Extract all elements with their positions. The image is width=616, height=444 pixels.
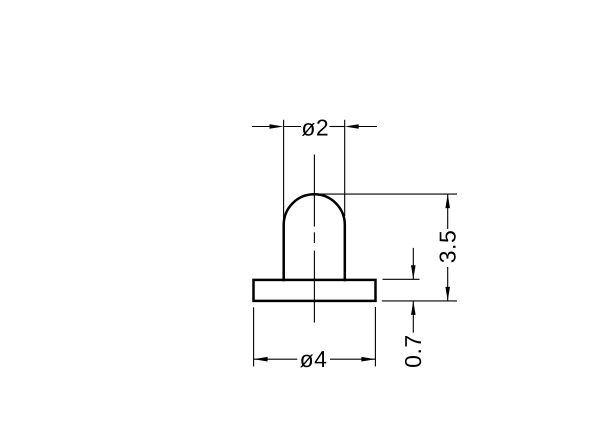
svg-text:3.5: 3.5: [434, 230, 460, 263]
dimension ø2: right arrowhead: [345, 124, 359, 129]
dimension 0.7: lower arrowhead: [411, 301, 416, 315]
dimension 0.7: upper leader with down arrow: [412, 248, 414, 279]
dimension ø2: left extension line: [283, 120, 285, 224]
dimension ø4: right line segment: [330, 358, 375, 360]
dimension 3.5: bottom arrowhead: [445, 287, 450, 301]
dimension ø4: left line segment: [254, 358, 298, 360]
dimension 0.7: lower leader with up arrow: [412, 301, 414, 333]
svg-text:0.7: 0.7: [400, 334, 426, 367]
dimension ø2: left stub: [284, 126, 301, 128]
svg-text:ø2: ø2: [301, 115, 329, 141]
dimension 3.5: lower line segment: [447, 267, 449, 301]
dimension ø2: right extension line: [344, 120, 346, 216]
dimension 3.5: upper line segment: [447, 194, 449, 229]
dimension ø2: right outside tail: [358, 126, 377, 128]
svg-text:ø4: ø4: [300, 346, 328, 372]
dimension ø4: right extension line: [374, 307, 376, 367]
dimension ø2: left outside tail: [252, 126, 271, 128]
dimension ø4: left arrowhead: [254, 357, 268, 362]
dimension 3.5: top extension line (from dome apex): [315, 193, 458, 195]
dimension 0.7: upper extension line (base top): [383, 278, 420, 280]
part outline: base flange rectangle: [254, 280, 376, 301]
dimension 3.5: bottom extension line (base underside, shared with 0.7): [382, 300, 457, 302]
dimension ø4: left extension line: [253, 307, 255, 366]
part outline: dome (bullet profile): [284, 194, 345, 280]
dimension 3.5: top arrowhead: [445, 194, 450, 208]
dimension 0.7: upper arrowhead: [411, 265, 416, 279]
dimension ø2: left arrowhead: [270, 124, 284, 129]
dimension ø2: right stub: [330, 126, 345, 128]
dimension ø4: right arrowhead: [361, 357, 375, 362]
centerline (vertical dash-dot axis): [313, 155, 315, 323]
